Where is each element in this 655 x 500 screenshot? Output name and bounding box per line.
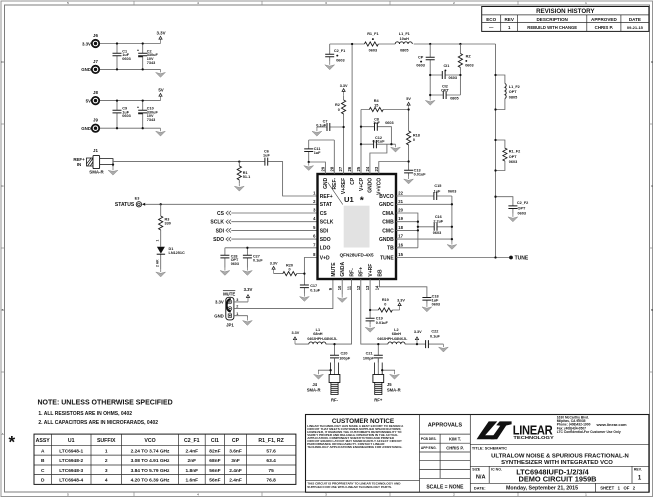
svg-text:V+REF: V+REF xyxy=(341,178,347,194)
svg-text:OPT: OPT xyxy=(441,88,449,92)
svg-text:3nF: 3nF xyxy=(231,458,240,464)
svg-text:28: 28 xyxy=(329,166,334,171)
svg-text:REF+: REF+ xyxy=(320,194,333,200)
svg-text:3.3V: 3.3V xyxy=(82,41,91,46)
svg-text:ULTRALOW NOISE & SPURIOUS FRAC: ULTRALOW NOISE & SPURIOUS FRACTIONAL-N xyxy=(491,454,629,460)
svg-text:51.1: 51.1 xyxy=(243,175,250,179)
svg-text:1.6nF: 1.6nF xyxy=(186,478,199,484)
svg-text:TUNE: TUNE xyxy=(380,255,394,261)
svg-text:J8: J8 xyxy=(93,90,98,95)
svg-text:3.3V: 3.3V xyxy=(414,330,422,334)
svg-text:C22: C22 xyxy=(431,329,438,333)
svg-text:23: 23 xyxy=(374,166,379,171)
svg-text:0603: 0603 xyxy=(432,303,440,307)
svg-text:5V: 5V xyxy=(158,88,163,93)
svg-text:75: 75 xyxy=(268,468,274,474)
svg-text:NOTE: UNLESS OTHERWISE SPECIFI: NOTE: UNLESS OTHERWISE SPECIFIED xyxy=(38,400,173,407)
svg-text:0: 0 xyxy=(413,138,415,142)
svg-text:26: 26 xyxy=(347,166,352,171)
svg-text:2: 2 xyxy=(105,458,108,464)
svg-text:68nF: 68nF xyxy=(209,458,220,464)
svg-text:SDI: SDI xyxy=(320,228,329,234)
svg-text:2. ALL CAPACITORS ARE IN MICRO: 2. ALL CAPACITORS ARE IN MICROFARADS, 04… xyxy=(38,420,158,426)
svg-text:D: D xyxy=(41,478,45,484)
svg-text:3: 3 xyxy=(236,298,238,302)
svg-text:0402HPH-68NXJL: 0402HPH-68NXJL xyxy=(307,337,338,341)
svg-text:LTC6948-1: LTC6948-1 xyxy=(59,449,83,455)
svg-text:2: 2 xyxy=(236,305,238,309)
svg-text:09-21-15: 09-21-15 xyxy=(627,25,644,30)
svg-text:56nF: 56nF xyxy=(209,478,220,484)
svg-text:0: 0 xyxy=(384,303,386,307)
svg-text:82nF: 82nF xyxy=(209,449,220,455)
svg-text:68nH: 68nH xyxy=(313,332,323,336)
svg-text:JP1: JP1 xyxy=(226,322,234,327)
svg-text:V+VCO: V+VCO xyxy=(377,178,383,195)
svg-text:0.1uF: 0.1uF xyxy=(253,258,263,262)
svg-text:R1_F2: R1_F2 xyxy=(509,150,520,154)
svg-text:0603: 0603 xyxy=(231,262,239,266)
svg-text:LTC Confidential-For Customer: LTC Confidential-For Customer Use Only xyxy=(557,430,621,434)
svg-text:QFN28UFD-4X5: QFN28UFD-4X5 xyxy=(340,252,374,257)
svg-text:11: 11 xyxy=(347,285,352,290)
svg-text:CMC: CMC xyxy=(382,228,394,234)
svg-text:SYNTHESIZER WITH INTEGRATED VC: SYNTHESIZER WITH INTEGRATED VCO xyxy=(501,460,613,466)
svg-text:KIM T.: KIM T. xyxy=(449,437,461,442)
svg-text:SCLK: SCLK xyxy=(320,220,334,226)
svg-text:ASSY: ASSY xyxy=(36,438,51,444)
svg-text:REF-: REF- xyxy=(332,177,338,189)
svg-text:APPROVALS: APPROVALS xyxy=(428,423,463,429)
svg-text:GNDC: GNDC xyxy=(379,202,394,208)
svg-text:SUFFIX: SUFFIX xyxy=(97,438,116,444)
svg-text:DATE:: DATE: xyxy=(474,485,486,490)
svg-text:R19: R19 xyxy=(382,298,389,302)
svg-text:0603: 0603 xyxy=(509,160,517,164)
svg-text:3.3V: 3.3V xyxy=(291,331,299,335)
svg-text:2nF: 2nF xyxy=(188,458,197,464)
svg-text:—: — xyxy=(489,25,494,30)
svg-text:*: * xyxy=(9,433,16,452)
svg-text:0: 0 xyxy=(288,268,290,272)
svg-text:0.1uF: 0.1uF xyxy=(310,288,321,292)
svg-text:29: 29 xyxy=(320,166,325,171)
svg-text:J5: J5 xyxy=(387,382,392,387)
svg-text:RF-: RF- xyxy=(331,397,339,402)
svg-text:A: A xyxy=(2,432,4,436)
svg-text:3.3V: 3.3V xyxy=(215,300,224,305)
svg-text:STAT: STAT xyxy=(320,202,332,208)
svg-text:SUPPLIED FOR USE WITH LINEAR T: SUPPLIED FOR USE WITH LINEAR TECHNOLOGY … xyxy=(307,485,392,489)
svg-text:J6: J6 xyxy=(93,33,98,38)
svg-text:0603: 0603 xyxy=(518,212,526,216)
svg-text:5V: 5V xyxy=(86,98,91,103)
svg-text:C20: C20 xyxy=(341,352,348,356)
svg-text:REV: REV xyxy=(504,17,514,22)
svg-text:0805: 0805 xyxy=(400,49,408,53)
svg-text:R1_F1, RZ: R1_F1, RZ xyxy=(258,438,284,444)
svg-text:20: 20 xyxy=(398,208,403,213)
svg-text:2 AK: 2 AK xyxy=(155,259,159,267)
svg-text:OPT: OPT xyxy=(509,155,517,159)
svg-text:0603: 0603 xyxy=(433,231,441,235)
svg-text:TECHNOLOGY: TECHNOLOGY xyxy=(513,435,554,440)
svg-text:LTC6948-4: LTC6948-4 xyxy=(59,478,83,484)
svg-text:C21: C21 xyxy=(366,352,373,356)
svg-text:J7: J7 xyxy=(93,59,98,64)
svg-text:2.4nF: 2.4nF xyxy=(186,449,199,455)
svg-text:0402HPH-68NXJL: 0402HPH-68NXJL xyxy=(377,337,408,341)
svg-text:CP: CP xyxy=(350,177,356,185)
svg-text:0.1uF: 0.1uF xyxy=(430,335,441,339)
svg-text:18: 18 xyxy=(398,225,403,230)
svg-text:A: A xyxy=(41,449,45,455)
svg-text:APPROVED: APPROVED xyxy=(591,17,617,22)
svg-text:SCLK: SCLK xyxy=(210,220,224,226)
svg-text:2.4nF: 2.4nF xyxy=(229,478,242,484)
svg-text:SHEET 1 OF 2: SHEET 1 OF 2 xyxy=(600,485,636,490)
svg-text:4.20 TO 6.39 GHz: 4.20 TO 6.39 GHz xyxy=(131,478,170,484)
svg-text:B: B xyxy=(41,458,45,464)
svg-text:U1: U1 xyxy=(344,195,354,204)
svg-text:100pF: 100pF xyxy=(363,357,375,361)
svg-text:RF+: RF+ xyxy=(359,267,365,277)
svg-text:C15: C15 xyxy=(434,184,441,188)
svg-text:LDO: LDO xyxy=(320,246,331,252)
svg-text:0.01uF: 0.01uF xyxy=(414,173,427,177)
svg-text:3.6nF: 3.6nF xyxy=(229,449,242,455)
svg-text:TITLE: SCHEMATIC: TITLE: SCHEMATIC xyxy=(472,446,507,450)
svg-text:22: 22 xyxy=(398,191,403,196)
svg-text:1uF: 1uF xyxy=(434,189,441,193)
svg-text:TECHNOLOGY APPLICATIONS ENGINE: TECHNOLOGY APPLICATIONS ENGINEERING FOR … xyxy=(307,445,402,449)
svg-text:C2_F1: C2_F1 xyxy=(184,438,200,444)
svg-text:IN: IN xyxy=(77,162,81,167)
svg-text:REBUILD WITH CHANGE: REBUILD WITH CHANGE xyxy=(527,25,577,30)
svg-text:APP ENG.: APP ENG. xyxy=(421,446,437,450)
svg-text:1uF: 1uF xyxy=(263,154,270,158)
svg-text:TUNE: TUNE xyxy=(515,256,529,262)
svg-text:63.4: 63.4 xyxy=(266,458,276,464)
svg-text:LTC6948-3: LTC6948-3 xyxy=(59,468,83,474)
svg-text:RZ: RZ xyxy=(466,54,472,58)
svg-text:J4: J4 xyxy=(312,382,317,387)
svg-text:GND: GND xyxy=(81,126,91,131)
svg-text:27: 27 xyxy=(338,166,343,171)
svg-text:SDI: SDI xyxy=(216,228,225,234)
svg-text:GNDO: GNDO xyxy=(368,178,374,193)
svg-text:J1: J1 xyxy=(93,148,98,153)
svg-text:GNDA: GNDA xyxy=(340,261,346,276)
svg-text:SMA-R: SMA-R xyxy=(387,388,401,393)
svg-text:RF+: RF+ xyxy=(374,397,383,402)
svg-text:3.3V: 3.3V xyxy=(340,84,348,88)
svg-text:J9: J9 xyxy=(93,118,98,123)
svg-text:PCB DES.: PCB DES. xyxy=(421,437,437,441)
svg-text:R2: R2 xyxy=(335,103,340,107)
svg-text:V+RF: V+RF xyxy=(368,264,374,277)
svg-text:10: 10 xyxy=(337,285,342,290)
svg-text:1: 1 xyxy=(155,240,159,242)
svg-text:0: 0 xyxy=(338,108,340,112)
svg-text:0603: 0603 xyxy=(122,57,130,61)
svg-text:BB: BB xyxy=(377,269,383,277)
svg-text:330: 330 xyxy=(165,222,171,226)
svg-text:2.24 TO 3.74 GHz: 2.24 TO 3.74 GHz xyxy=(131,449,170,455)
svg-text:CP: CP xyxy=(232,438,240,444)
svg-text:0603: 0603 xyxy=(465,64,473,68)
svg-text:CI1: CI1 xyxy=(211,438,219,444)
svg-text:DESCRIPTION: DESCRIPTION xyxy=(536,17,568,22)
svg-text:C2_F2: C2_F2 xyxy=(517,201,528,205)
svg-text:B: B xyxy=(651,308,653,312)
svg-text:R18: R18 xyxy=(413,133,420,137)
svg-text:3.3V: 3.3V xyxy=(397,298,405,302)
svg-text:0603: 0603 xyxy=(336,58,344,62)
svg-text:3.3V: 3.3V xyxy=(156,30,165,35)
svg-text:GND: GND xyxy=(214,314,224,319)
svg-text:E3: E3 xyxy=(135,196,140,200)
svg-text:5V: 5V xyxy=(406,97,411,101)
svg-text:10uH: 10uH xyxy=(400,37,410,41)
svg-text:2.2uF: 2.2uF xyxy=(433,219,444,223)
svg-text:7343: 7343 xyxy=(147,118,155,122)
svg-text:3.08 TO 4.91 GHz: 3.08 TO 4.91 GHz xyxy=(131,458,170,464)
svg-text:SIZE: SIZE xyxy=(472,467,480,471)
svg-text:C2_F1: C2_F1 xyxy=(334,49,345,53)
svg-text:1.8nF: 1.8nF xyxy=(186,468,199,474)
svg-text:OPT: OPT xyxy=(518,206,526,210)
svg-text:13: 13 xyxy=(365,285,370,290)
svg-text:1: 1 xyxy=(236,312,238,316)
svg-text:GND: GND xyxy=(81,67,91,72)
svg-text:IC NO.: IC NO. xyxy=(491,467,502,471)
svg-text:REV.: REV. xyxy=(634,467,642,471)
svg-text:SMA-R: SMA-R xyxy=(89,169,104,174)
svg-text:3.84 TO 5.79 GHz: 3.84 TO 5.79 GHz xyxy=(131,468,170,474)
svg-text:STATUS: STATUS xyxy=(115,202,135,208)
svg-text:REVISION HISTORY: REVISION HISTORY xyxy=(536,8,595,15)
svg-text:100pF: 100pF xyxy=(339,357,351,361)
svg-text:MUTE: MUTE xyxy=(223,292,235,297)
svg-text:RF-: RF- xyxy=(349,268,355,277)
svg-text:SMA-R: SMA-R xyxy=(307,388,321,393)
svg-text:7343: 7343 xyxy=(147,61,155,65)
svg-text:2.4nF: 2.4nF xyxy=(229,468,242,474)
svg-text:24: 24 xyxy=(365,166,370,171)
svg-text:68nH: 68nH xyxy=(392,332,402,336)
svg-text:0603: 0603 xyxy=(385,121,393,125)
svg-text:19: 19 xyxy=(398,216,403,221)
svg-text:15: 15 xyxy=(398,252,403,257)
svg-text:TB: TB xyxy=(387,246,394,252)
svg-text:1. ALL RESISTORS ARE IN OHMS,: 1. ALL RESISTORS ARE IN OHMS, 0402 xyxy=(38,411,132,417)
svg-text:4: 4 xyxy=(105,478,108,484)
svg-text:CHRIS P.: CHRIS P. xyxy=(446,446,464,451)
svg-text:1uF: 1uF xyxy=(373,121,380,125)
svg-text:0805: 0805 xyxy=(509,95,517,99)
svg-text:C: C xyxy=(651,184,653,188)
svg-text:GND: GND xyxy=(323,177,329,189)
svg-text:CP: CP xyxy=(418,55,424,59)
svg-text:L1_F2: L1_F2 xyxy=(509,85,520,89)
svg-text:Monday, September 21, 2015: Monday, September 21, 2015 xyxy=(506,485,578,491)
svg-text:V+CP: V+CP xyxy=(359,177,365,191)
svg-text:LN1251C: LN1251C xyxy=(169,251,186,255)
svg-text:0.1uF: 0.1uF xyxy=(316,124,327,128)
svg-text:B: B xyxy=(2,308,4,312)
svg-text:OPT: OPT xyxy=(509,90,517,94)
svg-text:DEMO CIRCUIT 1959B: DEMO CIRCUIT 1959B xyxy=(518,475,596,484)
svg-text:CS: CS xyxy=(217,211,225,217)
svg-text:GNDB: GNDB xyxy=(379,237,394,243)
svg-text:0603: 0603 xyxy=(448,189,456,193)
svg-text:56nF: 56nF xyxy=(209,468,220,474)
svg-text:ECO: ECO xyxy=(486,17,496,22)
svg-text:12: 12 xyxy=(356,285,361,290)
svg-text:57.6: 57.6 xyxy=(266,449,276,455)
svg-text:LTC6948-2: LTC6948-2 xyxy=(59,458,83,464)
svg-text:CI1: CI1 xyxy=(443,64,449,68)
svg-text:VCO: VCO xyxy=(144,438,155,444)
svg-text:www.linear.com: www.linear.com xyxy=(596,422,628,427)
svg-text:V+D: V+D xyxy=(320,255,330,261)
svg-text:SCALE = NONE: SCALE = NONE xyxy=(426,485,464,491)
svg-text:0603: 0603 xyxy=(416,64,424,68)
svg-text:DATE: DATE xyxy=(629,17,641,22)
svg-text:14: 14 xyxy=(374,285,379,290)
svg-text:76.8: 76.8 xyxy=(266,478,276,484)
svg-text:MUTE: MUTE xyxy=(331,262,337,277)
svg-text:R1_F1: R1_F1 xyxy=(367,32,378,36)
svg-text:SDO: SDO xyxy=(320,237,331,243)
svg-text:1uF: 1uF xyxy=(314,151,321,155)
svg-text:0805: 0805 xyxy=(450,96,458,100)
svg-text:0603: 0603 xyxy=(369,49,377,53)
svg-text:3.3V: 3.3V xyxy=(244,287,253,292)
svg-text:CHRIS P.: CHRIS P. xyxy=(595,25,613,30)
svg-text:SDO: SDO xyxy=(213,237,224,243)
svg-text:U1: U1 xyxy=(68,438,75,444)
svg-text:25: 25 xyxy=(356,166,361,171)
svg-text:N/A: N/A xyxy=(476,475,486,481)
svg-text:0603: 0603 xyxy=(122,114,130,118)
svg-text:17: 17 xyxy=(398,234,403,239)
svg-text:CMA: CMA xyxy=(382,211,394,217)
svg-text:0603: 0603 xyxy=(449,76,457,80)
svg-text:16: 16 xyxy=(398,242,403,247)
svg-text:D: D xyxy=(651,60,653,64)
svg-text:0.01uF: 0.01uF xyxy=(376,321,389,325)
svg-text:C19: C19 xyxy=(376,317,383,321)
svg-text:21: 21 xyxy=(398,199,403,204)
svg-text:C: C xyxy=(41,468,45,474)
svg-text:CMB: CMB xyxy=(382,220,394,226)
svg-text:15: 15 xyxy=(374,104,378,108)
svg-text:1: 1 xyxy=(105,449,108,455)
svg-text:CS: CS xyxy=(320,211,328,217)
svg-text:L1_F1: L1_F1 xyxy=(399,32,410,36)
svg-text:0.01uF: 0.01uF xyxy=(372,140,385,144)
svg-text:3: 3 xyxy=(105,468,108,474)
svg-text:3.3V: 3.3V xyxy=(270,262,278,266)
